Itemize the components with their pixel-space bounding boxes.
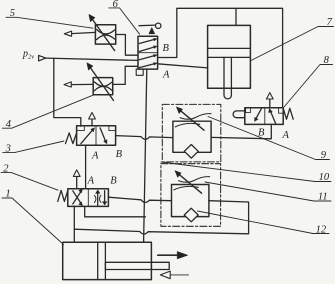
flow control unit 9/10: [162, 104, 221, 161]
throttle valve 4: [87, 63, 114, 101]
label 11 with leader: [205, 182, 331, 203]
label 12 with leader: [198, 211, 330, 235]
pressure source p2v: [22, 49, 46, 61]
valve 6 manual 4/2 distributor: [136, 36, 157, 75]
exhaust arrow valve 8: [266, 93, 273, 108]
motion arrow return (open): [160, 271, 188, 279]
svg-text:A: A: [87, 176, 95, 187]
label 5 with leader: [6, 8, 93, 28]
wire valve 3 port B to flow control 9/10 with crossing hump: [116, 136, 173, 140]
svg-text:A: A: [162, 70, 170, 81]
wire branch to cylinder 7 top: [235, 8, 237, 25]
wire valve 8 to flow control 9/10: [211, 124, 271, 138]
svg-text:A: A: [91, 151, 99, 162]
wire valve 2 bottom to long vertical: [85, 206, 146, 216]
cylinder 7: [208, 25, 251, 98]
wire valve 4 to valve 6: [113, 66, 138, 84]
flow control unit 11/12: [161, 164, 221, 227]
exhaust arrow valve 3: [89, 113, 96, 126]
wire P main line to valve 6: [46, 58, 138, 60]
label 7 with leader: [251, 17, 334, 60]
cylinder 1: [63, 242, 170, 279]
wire valve 6 port A to cylinder 7: [158, 64, 208, 68]
label 8 with leader: [284, 55, 333, 107]
svg-text:A: A: [282, 130, 290, 141]
label 4 with leader: [2, 95, 93, 130]
svg-text:B: B: [110, 176, 117, 187]
wire pilot branch to valve 3: [54, 58, 81, 126]
wire valve 6 port B to top loop and valve 8 pilot: [158, 8, 283, 108]
throttle valve 5: [89, 14, 116, 50]
svg-text:B: B: [163, 43, 170, 54]
wire valve 2 port B to flow control 11/12 with hump: [108, 197, 171, 202]
valve 2 with throttled position: [58, 189, 109, 207]
label 2 with leader: [1, 163, 58, 190]
wire valve 3 port A down to valve 2: [85, 145, 87, 188]
motion arrow forward (solid): [158, 252, 188, 259]
exhaust arrow valve 5: [64, 31, 95, 36]
label 9 with leader: [208, 117, 330, 162]
svg-text:B: B: [116, 149, 123, 160]
label 6 with leader: [109, 0, 140, 34]
exhaust arrow valve 2: [73, 170, 80, 189]
exhaust arrow valve 4: [64, 82, 93, 87]
label 1 with leader: [2, 189, 64, 245]
wire valve 5 to valve 6: [116, 35, 138, 56]
long wire from valve 6 bottom down to cylinder 1 rod side: [144, 69, 147, 242]
label 3 with leader: [3, 141, 64, 154]
valve 8 roller 3/2: [233, 108, 293, 125]
hand lever of valve 6: [139, 23, 161, 34]
wire valve 2 to cylinder 1 cap side: [73, 206, 75, 242]
valve 3 pilot 3/2: [66, 126, 116, 146]
svg-text:6: 6: [113, 0, 119, 10]
label 10 with leader: [161, 162, 331, 183]
return wire from flow control 11/12 to cylinder cap side: [74, 201, 248, 234]
